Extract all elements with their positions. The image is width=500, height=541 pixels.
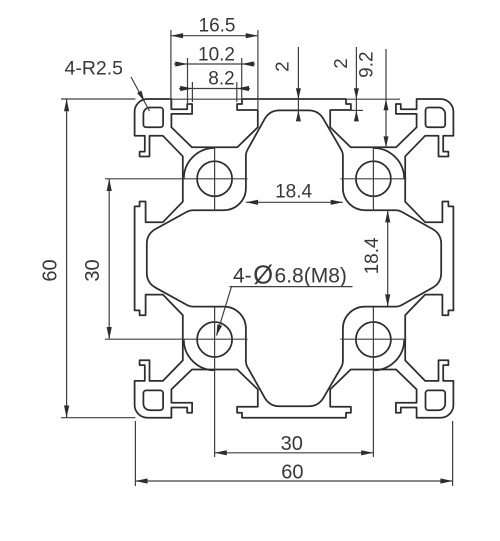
center mark horizontal, top-right hole [340, 178, 406, 180]
svg-text:2: 2 [272, 61, 293, 71]
corner cavity square hole top-right (R2.5) [426, 108, 446, 128]
svg-text:4-Ø6.8(M8): 4-Ø6.8(M8) [233, 262, 347, 290]
center mark horizontal, bottom-right hole [340, 338, 406, 340]
surface extension line [172, 98, 400, 100]
central cavity boundary (4 dome walls + 4 boss corner arcs) [147, 110, 441, 406]
svg-text:30: 30 [281, 433, 303, 455]
dim 30 bottom [215, 452, 374, 454]
screw boss arc top-right [373, 148, 404, 179]
core hole top-left (diam 6.8 M8) [197, 161, 232, 196]
core hole top-right (diam 6.8 M8) [356, 161, 391, 196]
dim 16.5 [171, 35, 258, 37]
svg-text:2: 2 [330, 58, 351, 68]
svg-text:16.5: 16.5 [199, 15, 236, 36]
dim 10.2 [174, 63, 255, 65]
corner cavity square hole top-left (R2.5) [143, 108, 163, 128]
svg-text:8.2: 8.2 [208, 69, 234, 90]
dim 9.2 [385, 49, 387, 147]
screw boss arc top-left [184, 148, 215, 179]
svg-text:18.4: 18.4 [275, 182, 312, 203]
svg-text:30: 30 [82, 259, 104, 281]
dim 60 left [66, 99, 68, 418]
core hole bottom-left (diam 6.8 M8) [197, 322, 232, 357]
corner cavity square hole bottom-left (R2.5) [143, 390, 163, 410]
dim 18.4 horizontal [246, 201, 343, 203]
dim 2 (first) [297, 47, 299, 121]
dim 60 bottom [135, 480, 452, 482]
core hole bottom-right (diam 6.8 M8) [356, 322, 391, 357]
screw boss arc bottom-right [373, 340, 404, 371]
svg-text:10.2: 10.2 [198, 45, 235, 66]
svg-text:18.4: 18.4 [362, 237, 383, 274]
corner cavity square hole bottom-right (R2.5) [426, 390, 446, 410]
extrusion profile outer outline (60x60, 8 T-slots) [135, 99, 454, 418]
svg-text:9.2: 9.2 [357, 51, 378, 77]
center mark vertical, top-left hole [214, 147, 216, 211]
center mark vertical, top-right hole [372, 147, 374, 211]
dim 8.2 [179, 88, 250, 90]
svg-text:4-R2.5: 4-R2.5 [65, 58, 124, 80]
svg-text:60: 60 [40, 259, 62, 281]
center mark vertical, bottom-right hole + extension to bottom 30 dim [372, 307, 374, 457]
dim 2 (second) [355, 47, 357, 121]
center mark horizontal, bottom-left hole + extension to left 30 dim [105, 338, 248, 340]
screw boss arc bottom-left [184, 340, 215, 371]
center mark vertical, bottom-left hole + extension to bottom 30 dim [214, 307, 216, 457]
dim 30 left [108, 179, 110, 339]
dim 18.4 vertical right [387, 210, 389, 306]
svg-text:60: 60 [281, 462, 303, 484]
center mark horizontal, top-left hole + extension to left 30 dim [105, 178, 248, 180]
